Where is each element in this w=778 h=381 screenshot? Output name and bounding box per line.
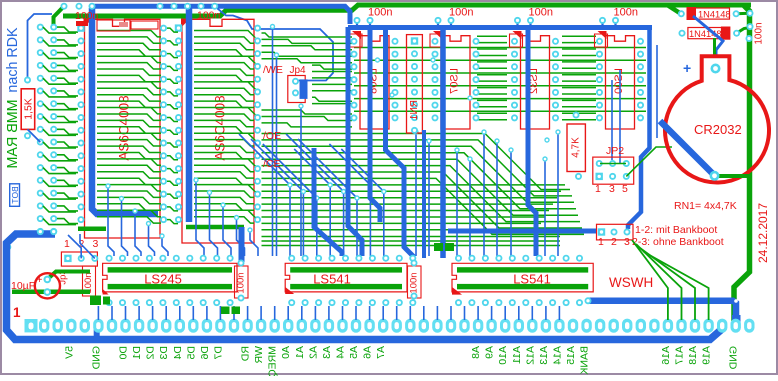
svg-text:JP2: JP2 — [606, 145, 624, 157]
wire: R1 to pad (blue) — [28, 129, 41, 142]
svg-text:A14: A14 — [551, 346, 563, 365]
connector edge pads bottom row — [25, 319, 755, 333]
diode pads — [678, 10, 740, 36]
wire: blue upper horizontal to JP5 — [448, 229, 596, 234]
wire: thin blues near LS00/JP2 — [612, 45, 657, 164]
svg-text:100n: 100n — [614, 7, 638, 19]
IC U8 pads — [288, 255, 416, 306]
resistor R1 1,5K outline — [21, 89, 35, 130]
pin1 marker U8 — [285, 287, 294, 294]
svg-text:D1: D1 — [131, 346, 143, 360]
wire: mid staircase drops (blue) — [239, 134, 386, 256]
svg-text:A12: A12 — [524, 346, 536, 365]
wire: edge pads to buffer pads (blue) — [98, 306, 559, 320]
svg-text:RD: RD — [240, 346, 252, 362]
jumper JP5 outline — [597, 224, 634, 240]
wire: thin blue WE net from top — [215, 6, 333, 80]
IC U6 pads — [596, 38, 644, 122]
svg-text:3: 3 — [609, 183, 615, 195]
svg-text:5V: 5V — [63, 346, 75, 359]
svg-text:BANK: BANK — [579, 346, 591, 375]
pads on GND bar left — [37, 228, 57, 235]
wire: +5V right edge vertical (green) — [734, 6, 750, 322]
wire: GND rail across logic ICs (blue) — [348, 25, 652, 30]
edge pad 1 (square) — [25, 319, 38, 332]
wire: blue vertical LS07 left — [422, 130, 426, 258]
layer label BOT — [10, 184, 20, 207]
svg-text:A11: A11 — [511, 346, 523, 364]
svg-text:A0: A0 — [280, 346, 292, 359]
wire: blue vertical LS08 b — [386, 27, 415, 257]
IC U5 pads — [511, 38, 559, 122]
svg-text:AS6C4008: AS6C4008 — [117, 95, 132, 160]
jumper JP2 outline — [593, 157, 634, 184]
svg-text:A1: A1 — [294, 346, 306, 359]
RAM U2 pin1 marker — [181, 19, 190, 28]
pad at blue start — [585, 297, 592, 304]
wire: A16-A19 green verticals — [632, 240, 709, 320]
via on blue bus — [734, 299, 738, 303]
svg-text:BOT: BOT — [10, 186, 20, 203]
wire: Jp4 area blue verticals — [270, 24, 304, 256]
svg-text:24.12.2017: 24.12.2017 — [756, 203, 770, 263]
svg-text:100n: 100n — [75, 10, 99, 22]
svg-text:GND: GND — [90, 346, 102, 370]
svg-text:A5: A5 — [348, 346, 360, 359]
wire: D1 to C7 — [736, 12, 749, 16]
svg-text:1-2: mit Bankboot: 1-2: mit Bankboot — [635, 224, 717, 236]
IC U3 pin1 marker — [352, 31, 361, 39]
IC U9 LS541 outline — [452, 263, 593, 292]
IC U6 pin1 marker — [598, 31, 607, 39]
wire: GND top-left rail (blue) — [91, 6, 350, 24]
IC U6 LS00 outline — [606, 36, 635, 129]
wire: GND stub to pad (blue) — [94, 325, 100, 339]
wire: D2 to battery tab — [713, 38, 716, 58]
wire: blue thin top-left to via — [28, 14, 53, 80]
svg-text:100n: 100n — [368, 7, 392, 19]
svg-text:RN1: RN1 — [409, 100, 420, 120]
wire: blue vertical mid — [314, 148, 342, 256]
IC U9 pads — [455, 255, 583, 306]
wire: JP3 link blue b — [68, 235, 81, 258]
IC U3 LS08 outline — [360, 36, 389, 129]
capacitor C6 outline — [408, 266, 422, 298]
svg-text:2: 2 — [611, 236, 617, 248]
wire: D2 to C7 — [737, 28, 749, 34]
wire: green bar RAM U1 bottom — [78, 227, 106, 232]
svg-text:WSWH: WSWH — [609, 275, 653, 290]
wire: blue diagonal through diodes — [693, 16, 723, 58]
svg-text:A3: A3 — [321, 346, 333, 359]
wire: green diagonal top-left — [54, 6, 65, 27]
svg-text:3: 3 — [93, 238, 99, 250]
svg-text:D4: D4 — [172, 346, 184, 360]
svg-text:1: 1 — [64, 238, 70, 250]
wire: C1 plus to U7 bar — [47, 272, 90, 280]
jumper JP3 pads — [64, 255, 98, 262]
wire: blue vertical LS32 — [528, 27, 536, 256]
battery B1 CR2032 holder outline — [665, 56, 769, 182]
svg-text:1: 1 — [598, 236, 604, 248]
stray vias left edge — [24, 77, 31, 140]
wire: left connector fanout (green) — [43, 27, 78, 225]
svg-text:D5: D5 — [185, 346, 197, 360]
wire: GND drop right side (blue) — [628, 26, 650, 229]
wire: GND bottom bus (blue) — [7, 234, 723, 340]
jumper JP3 outline — [61, 252, 97, 266]
svg-text:GND: GND — [728, 346, 740, 370]
pin1 marker U9 — [452, 287, 462, 295]
RAM U1 pin1 marker — [84, 19, 93, 28]
pin1 marker U7 — [103, 289, 109, 295]
svg-text:D2: D2 — [145, 346, 157, 360]
IC U8 green power bars — [290, 267, 402, 272]
svg-text:+: + — [37, 275, 43, 286]
wire: 5V bar through C1 — [12, 289, 90, 294]
svg-text:A2: A2 — [307, 346, 319, 359]
wire: battery negative trace (blue) — [660, 121, 715, 176]
svg-text:nach RDK: nach RDK — [5, 27, 21, 93]
svg-text:RN1= 4x4,7K: RN1= 4x4,7K — [674, 200, 737, 212]
wire: lower band horizontals to LS541 (green) — [262, 237, 561, 246]
svg-text:+: + — [683, 60, 691, 76]
RAM U1 left pads — [77, 24, 84, 223]
svg-text:100n: 100n — [409, 272, 420, 293]
svg-text:A4: A4 — [335, 346, 347, 359]
wire: GND via RAM U1 (blue) — [92, 8, 158, 214]
svg-text:A9: A9 — [484, 346, 496, 359]
wire: RAM U2 drops to U8 (blue) — [193, 177, 258, 256]
svg-text:LS00: LS00 — [613, 68, 625, 94]
svg-text:D0: D0 — [118, 346, 130, 360]
connector J1 left pad column A — [37, 24, 44, 235]
svg-text:100n: 100n — [529, 7, 553, 19]
IC U7 green power bars — [108, 267, 232, 272]
edge connector net labels (green) — [63, 346, 739, 378]
svg-text:5: 5 — [622, 183, 628, 195]
jumper JP2 pads — [596, 160, 630, 180]
RAM U1 AS6C4008 outline — [85, 19, 161, 238]
svg-text:1: 1 — [595, 183, 601, 195]
wire: GND via RAM U2 (blue) — [186, 8, 193, 222]
wire: greens under logic ICs (green) — [354, 36, 646, 120]
svg-text:3: 3 — [624, 236, 630, 248]
IC U4 pads — [432, 38, 480, 122]
connector J1 left pad column B — [50, 24, 57, 235]
IC U5 LS32 outline — [521, 36, 550, 129]
wire: bus RAM1-RAM2 link (green) — [167, 28, 178, 224]
jumper Jp4 outline — [288, 76, 305, 103]
svg-text:4,7K: 4,7K — [571, 137, 582, 158]
RAM U2 AS6C4008 outline — [182, 19, 254, 243]
wire: bus inside RAM U2 (green) — [194, 31, 254, 224]
svg-text:A16: A16 — [660, 346, 672, 365]
IC U4 pin1 marker — [433, 31, 442, 39]
wire: blue vertical LS08 a — [370, 27, 380, 222]
wire: blue vertical LS07 — [440, 27, 446, 258]
svg-text:100n: 100n — [449, 7, 473, 19]
svg-text:A17: A17 — [674, 346, 686, 365]
diode D1 1N4148 — [688, 8, 730, 19]
svg-text:LS07: LS07 — [449, 68, 461, 94]
RAM U2 right pads — [254, 25, 261, 224]
IC U7 pads — [106, 255, 234, 306]
wire: RAM U1 drops to U7 (blue) — [105, 183, 168, 256]
svg-text:MMB RAM: MMB RAM — [5, 99, 21, 168]
svg-text:/WE: /WE — [263, 64, 283, 76]
diode D2 1N4148 — [688, 28, 722, 39]
svg-text:100n: 100n — [754, 22, 765, 44]
wire: bus RAM U2 to logic (green, upper) — [262, 33, 353, 127]
wire: right mid verticals (blue) — [413, 129, 560, 256]
RAM U2 left pads — [175, 24, 182, 223]
resistor R2 4,7K outline — [567, 124, 585, 172]
IC U5 pin1 marker — [513, 31, 522, 39]
capacitor C1 10uF outline — [35, 273, 60, 298]
svg-text:A19: A19 — [701, 346, 713, 365]
wire: +5V top rail (green) — [63, 5, 751, 16]
capacitor C5 outline — [235, 266, 249, 298]
wire: blue mid-right horizontal — [588, 301, 736, 320]
svg-text:A6: A6 — [362, 346, 374, 359]
svg-text:/CE: /CE — [263, 158, 281, 170]
wire: JP2 diagonal green — [626, 147, 672, 176]
IC U4 LS07 outline — [441, 36, 470, 129]
wire: JP2 row link green — [600, 163, 626, 165]
wire: green bar RAM U2 bottom — [186, 225, 244, 230]
svg-text:LS541: LS541 — [313, 272, 351, 287]
svg-text:D3: D3 — [158, 346, 170, 360]
svg-text:A8: A8 — [470, 346, 482, 359]
IC U7 LS245 outline — [103, 263, 237, 292]
wire: bus inside RAM U1 (green) — [97, 31, 161, 224]
IC U9 green power bars — [457, 267, 588, 272]
RAM U1 right pads — [160, 25, 167, 224]
wire: blue drop from RAM U2 — [239, 227, 245, 262]
IC U3 pads — [351, 38, 399, 122]
IC U8 LS541 outline — [285, 263, 407, 292]
svg-text:2-3: ohne Bankboot: 2-3: ohne Bankboot — [632, 236, 724, 248]
svg-text:100n: 100n — [197, 10, 221, 22]
svg-text:LS541: LS541 — [513, 272, 551, 287]
svg-text:D6: D6 — [199, 346, 211, 360]
svg-text:1,5K: 1,5K — [22, 98, 34, 120]
wire: battery neg pad to green rail — [715, 174, 751, 178]
battery pads — [710, 64, 721, 181]
svg-text:A18: A18 — [687, 346, 699, 365]
svg-text:10µF: 10µF — [11, 280, 35, 292]
RN1 pads — [411, 37, 418, 134]
top connector pads — [61, 3, 219, 10]
svg-text:CR2032: CR2032 — [694, 122, 742, 137]
wire: C7 link green — [749, 13, 752, 28]
vias logic area — [375, 57, 550, 142]
svg-text:A13: A13 — [538, 346, 550, 365]
wire: JP3 link blue a — [80, 234, 95, 258]
green solder jumper pads — [90, 243, 454, 314]
capacitor C4 outline — [83, 266, 96, 296]
svg-text:AS6C4008: AS6C4008 — [213, 95, 228, 160]
wire: blue vertical from top-left bend — [348, 27, 362, 256]
svg-text:1N4148: 1N4148 — [698, 9, 731, 19]
svg-text:/OE: /OE — [263, 130, 281, 142]
blue square via bottom right — [732, 315, 741, 324]
wire: 5V rail to D1 — [668, 6, 681, 14]
svg-text:LS245: LS245 — [144, 272, 182, 287]
svg-text:1: 1 — [13, 305, 21, 320]
svg-text:100n: 100n — [236, 272, 247, 293]
wire: horizontal bus band lower middle (green) — [262, 134, 585, 235]
svg-text:WR: WR — [253, 346, 265, 364]
jumper Jp4 pads — [292, 78, 308, 99]
svg-text:D7: D7 — [212, 346, 224, 360]
svg-text:A7: A7 — [375, 346, 387, 359]
svg-text:Jp4: Jp4 — [290, 65, 307, 76]
via on left blue bus — [5, 244, 12, 251]
svg-text:MREQ: MREQ — [267, 346, 279, 376]
svg-text:A15: A15 — [565, 346, 577, 365]
svg-text:A10: A10 — [497, 346, 509, 365]
jumper JP5 pads — [598, 228, 631, 235]
resistor network RN1 outline — [407, 35, 423, 133]
